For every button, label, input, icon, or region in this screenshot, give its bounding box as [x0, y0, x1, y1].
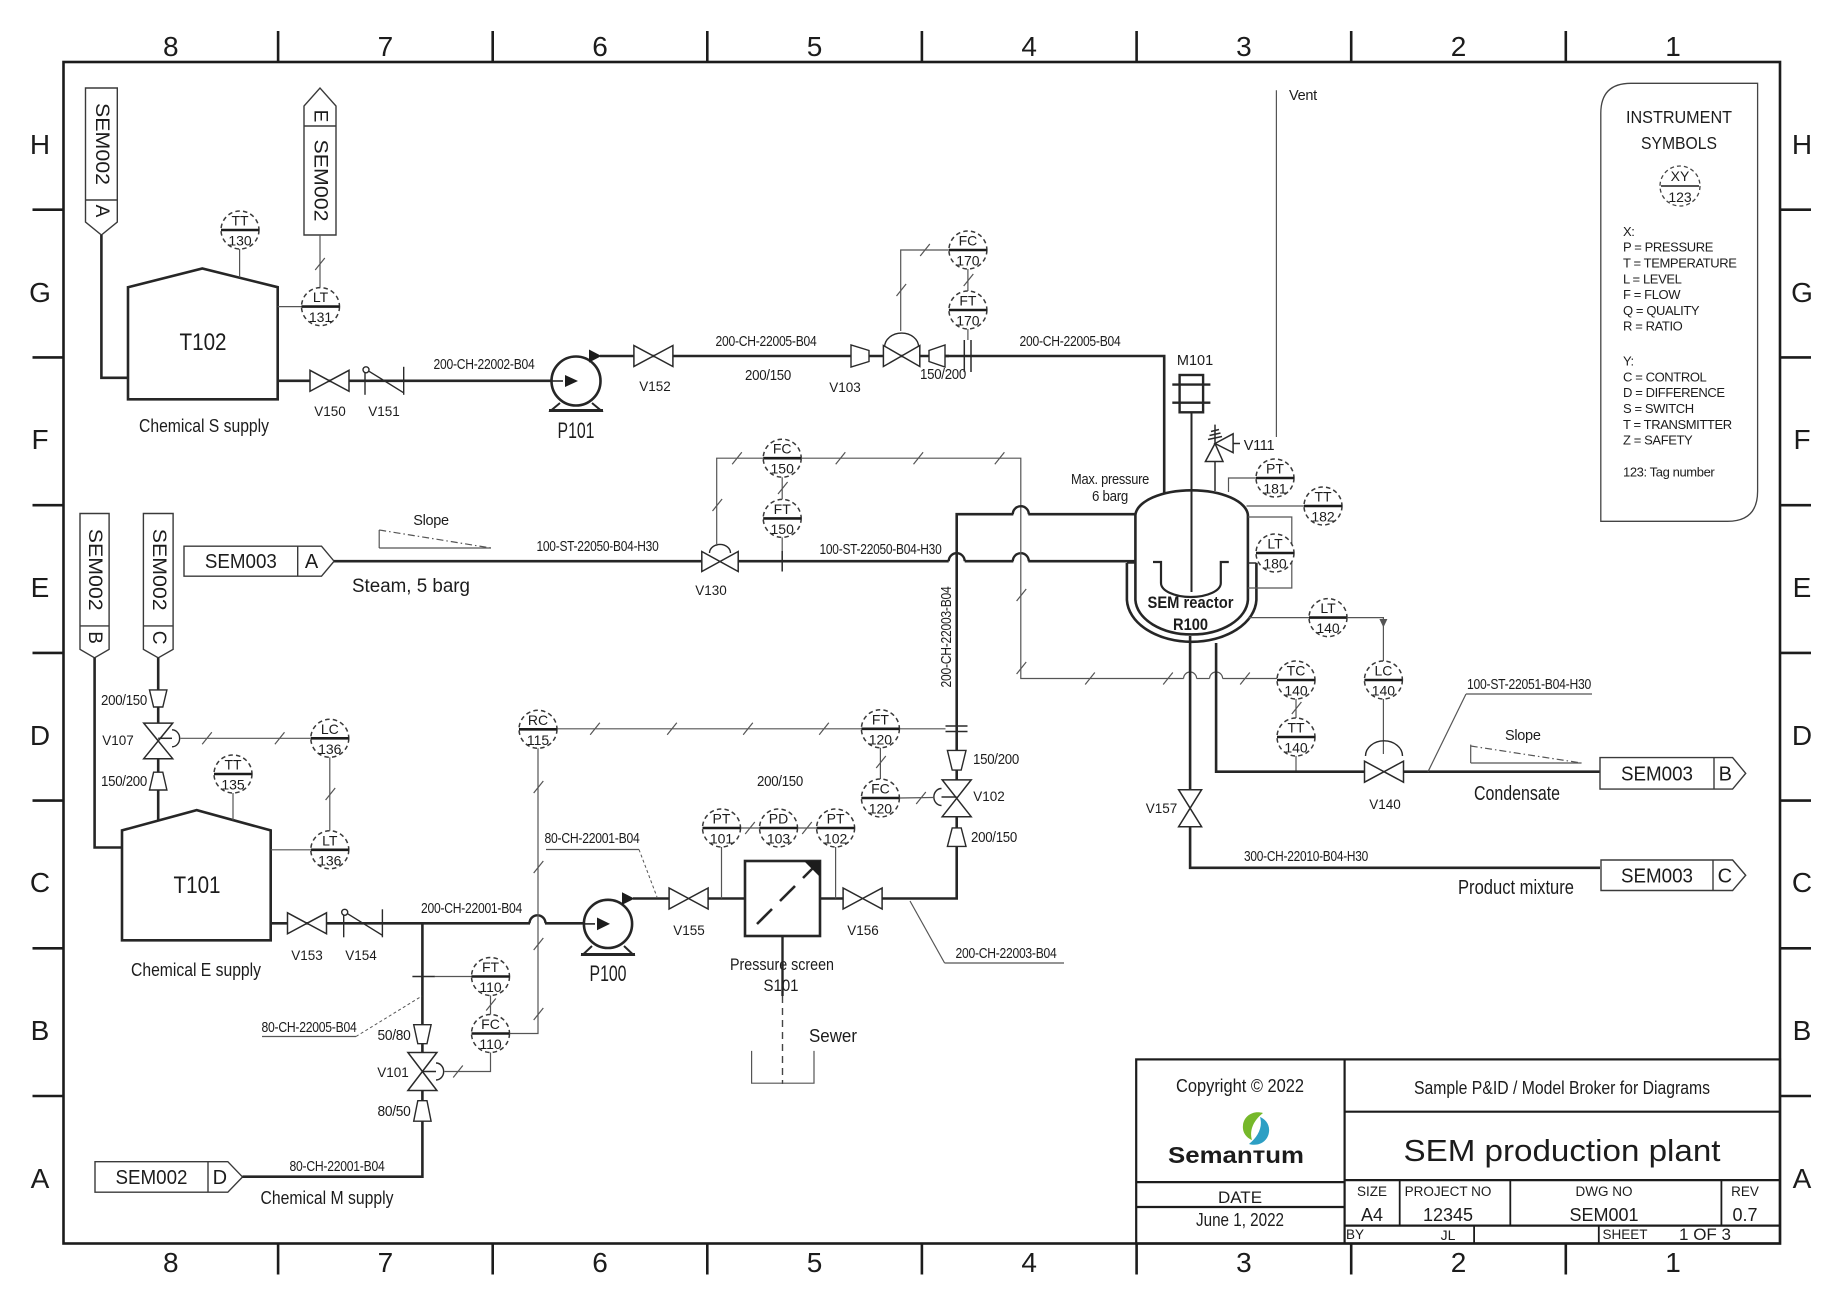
svg-text:E: E: [310, 110, 331, 123]
product pipe from reactor bottom: [1189, 636, 1192, 790]
off-page connector SEM002-A: [86, 88, 118, 235]
orifice flange taps FE170: [964, 340, 971, 372]
pipe 80-CH-22001 from flag D: [243, 1121, 423, 1177]
svg-text:S = SWITCH: S = SWITCH: [1623, 401, 1694, 416]
svg-text:100-ST-22050-B04-H30: 100-ST-22050-B04-H30: [820, 542, 942, 558]
svg-text:V130: V130: [695, 583, 727, 598]
instrument RC115: [519, 710, 557, 748]
svg-text:A: A: [31, 1163, 50, 1194]
svg-text:A: A: [305, 551, 319, 573]
svg-text:A: A: [91, 205, 112, 218]
svg-text:150/200: 150/200: [101, 774, 147, 790]
svg-text:DATE: DATE: [1218, 1188, 1262, 1207]
svg-text:SEM reactor: SEM reactor: [1148, 593, 1234, 612]
svg-text:6: 6: [592, 1247, 608, 1278]
instrument LC140: [1364, 661, 1402, 699]
svg-text:B: B: [84, 631, 105, 644]
svg-text:Z = SAFETY: Z = SAFETY: [1623, 433, 1693, 448]
svg-text:80-CH-22001-B04: 80-CH-22001-B04: [290, 1159, 385, 1175]
instrument LC136: [311, 719, 349, 757]
vent line: [1275, 90, 1277, 444]
svg-text:140: 140: [1372, 683, 1396, 699]
svg-text:135: 135: [221, 777, 245, 793]
svg-text:110: 110: [479, 1036, 502, 1052]
svg-text:T101: T101: [174, 872, 221, 899]
svg-text:TT: TT: [1314, 489, 1332, 505]
svg-text:R100: R100: [1173, 615, 1208, 634]
svg-text:PT: PT: [713, 811, 731, 827]
svg-text:P101: P101: [558, 418, 595, 443]
svg-text:300-CH-22010-B04-H30: 300-CH-22010-B04-H30: [1244, 849, 1368, 865]
svg-text:Chemical M supply: Chemical M supply: [261, 1187, 395, 1208]
svg-text:SEM production plant: SEM production plant: [1404, 1133, 1721, 1168]
svg-text:Max. pressure: Max. pressure: [1071, 472, 1149, 488]
signal FC120 to V102 actuator: [900, 797, 934, 800]
svg-text:TT: TT: [1287, 720, 1305, 736]
svg-text:F: F: [1793, 424, 1810, 455]
leader 200-CH-22003-B04: [910, 901, 945, 963]
instrument FC120: [861, 779, 899, 817]
svg-text:Semanтum: Semanтum: [1168, 1142, 1304, 1168]
svg-text:Y:: Y:: [1623, 354, 1634, 369]
svg-text:123: Tag number: 123: Tag number: [1623, 464, 1715, 479]
svg-text:R = RATIO: R = RATIO: [1623, 319, 1683, 334]
tap tank to LT136: [271, 849, 311, 851]
reactor jacket: [1127, 563, 1257, 642]
svg-text:FC: FC: [959, 233, 978, 249]
steam pipe 100-ST-22050: [334, 560, 702, 563]
tap to LT140: [1248, 617, 1309, 619]
svg-text:140: 140: [1284, 683, 1308, 699]
svg-text:8: 8: [163, 1247, 179, 1278]
svg-text:SEM003: SEM003: [1621, 865, 1693, 887]
off-page connector SEM003-B: [1600, 758, 1746, 790]
taps to LT180: [1248, 517, 1292, 588]
tank T101: [122, 810, 271, 940]
svg-text:115: 115: [527, 732, 550, 748]
reactor internal vortex U: [1153, 562, 1229, 597]
svg-text:150/200: 150/200: [920, 367, 966, 383]
signal RC115 down to FC110: [510, 748, 539, 1033]
svg-text:150: 150: [771, 461, 795, 477]
svg-text:140: 140: [1284, 740, 1308, 756]
svg-text:Sewer: Sewer: [809, 1026, 857, 1046]
svg-text:B: B: [1719, 763, 1732, 785]
stem TT130 to tank roof: [239, 249, 241, 278]
svg-text:SEM003: SEM003: [1621, 763, 1693, 785]
riser pipe 200-CH-22003-B04: [955, 846, 958, 898]
orifice taps FE120: [946, 726, 968, 732]
instrument TT182: [1304, 487, 1342, 525]
svg-text:V150: V150: [314, 404, 346, 419]
svg-text:Slope: Slope: [413, 513, 449, 529]
instrument LT131: [302, 288, 340, 326]
svg-text:V151: V151: [368, 404, 400, 419]
svg-text:Q = QUALITY: Q = QUALITY: [1623, 303, 1700, 318]
svg-text:1: 1: [1665, 1247, 1681, 1278]
svg-text:C: C: [1718, 865, 1732, 887]
signal orifice to FT120: [900, 728, 946, 730]
svg-text:5: 5: [807, 31, 823, 62]
valve V152: [634, 346, 673, 367]
tap to TT182: [1247, 505, 1305, 507]
valve V103: [883, 346, 919, 367]
instrument PT102: [817, 809, 855, 847]
svg-text:SHEET: SHEET: [1602, 1227, 1647, 1242]
slope symbol steam: [379, 530, 491, 548]
svg-text:136: 136: [318, 741, 342, 757]
svg-text:V140: V140: [1369, 797, 1401, 812]
pressure screen S101: [745, 861, 820, 936]
svg-text:SYMBOLS: SYMBOLS: [1641, 133, 1717, 153]
signal LC136-LT136: [329, 757, 331, 830]
svg-text:123: 123: [1668, 189, 1692, 205]
pipe T101 outlet: [271, 922, 530, 925]
signal orifice to FT150: [781, 537, 783, 551]
svg-text:FC: FC: [773, 441, 792, 457]
svg-text:150: 150: [771, 521, 795, 537]
svg-text:F: F: [31, 424, 48, 455]
svg-text:FT: FT: [774, 501, 792, 517]
column numbers bottom: [163, 1247, 1681, 1278]
svg-text:V111: V111: [1244, 438, 1275, 454]
signal FC150 to V130 actuator: [717, 458, 764, 546]
pipe flag C down: [157, 658, 160, 690]
svg-text:FC: FC: [871, 781, 890, 797]
signal RC115 to FT120: [557, 728, 861, 730]
svg-text:200/150: 200/150: [971, 830, 1017, 846]
svg-text:181: 181: [1263, 481, 1287, 497]
safety valve V111: [1205, 425, 1276, 491]
instrument TT130: [221, 211, 259, 249]
svg-text:V155: V155: [673, 923, 705, 938]
svg-text:PROJECT NO: PROJECT NO: [1405, 1184, 1492, 1199]
svg-text:1: 1: [1665, 31, 1681, 62]
svg-text:TC: TC: [1287, 663, 1306, 679]
svg-text:Chemical S supply: Chemical S supply: [139, 415, 270, 436]
svg-text:8: 8: [163, 31, 179, 62]
svg-text:200/150: 200/150: [757, 774, 803, 790]
svg-text:200-CH-22003-B04: 200-CH-22003-B04: [939, 586, 955, 687]
svg-text:V107: V107: [102, 733, 134, 748]
pipe V103 to reactor: [945, 356, 1164, 494]
svg-text:C = CONTROL: C = CONTROL: [1623, 369, 1707, 384]
valve V156: [843, 888, 882, 909]
instrument LT140: [1309, 599, 1347, 637]
svg-text:T = TEMPERATURE: T = TEMPERATURE: [1623, 255, 1737, 270]
svg-text:LC: LC: [1374, 663, 1392, 679]
instrument FC150: [763, 439, 801, 477]
svg-text:FC: FC: [481, 1016, 500, 1032]
svg-text:FT: FT: [959, 293, 977, 309]
signal LC140 to V140: [1382, 699, 1384, 754]
instrument FT170: [949, 291, 987, 329]
svg-text:DWG NO: DWG NO: [1576, 1184, 1633, 1199]
steam pipe V130 to reactor with crossing bumps: [738, 560, 949, 563]
svg-text:180: 180: [1263, 556, 1287, 572]
svg-text:120: 120: [869, 801, 893, 817]
svg-text:2: 2: [1451, 31, 1467, 62]
svg-text:LT: LT: [322, 832, 338, 848]
svg-text:P = PRESSURE: P = PRESSURE: [1623, 240, 1714, 255]
svg-text:136: 136: [318, 852, 342, 868]
svg-text:T102: T102: [180, 329, 227, 356]
svg-text:110: 110: [479, 979, 502, 995]
svg-text:Copyright © 2022: Copyright © 2022: [1176, 1076, 1304, 1096]
off-page connector SEM002-C: [143, 514, 173, 658]
svg-text:H: H: [30, 129, 50, 160]
svg-text:170: 170: [956, 253, 980, 269]
instrument PD103: [760, 809, 798, 847]
svg-text:Product mixture: Product mixture: [1458, 877, 1574, 899]
instrument FC170: [949, 231, 987, 269]
svg-text:200-CH-22002-B04: 200-CH-22002-B04: [434, 357, 535, 373]
row letters left: [29, 129, 51, 1194]
orifice tap on steam line: [781, 551, 783, 572]
svg-text:M101: M101: [1177, 353, 1213, 369]
svg-text:V152: V152: [639, 379, 671, 394]
off-page connector SEM003-A: [184, 546, 334, 576]
svg-text:4: 4: [1021, 31, 1037, 62]
signal orifice to FT110: [435, 976, 472, 978]
svg-text:SIZE: SIZE: [1357, 1184, 1387, 1199]
svg-text:102: 102: [824, 831, 848, 847]
off-page connector SEM002-D: [95, 1162, 243, 1193]
reducer 200/150 above V107: [150, 690, 167, 707]
svg-text:SEM002: SEM002: [148, 529, 169, 611]
instrument PT101: [703, 809, 741, 847]
svg-text:A: A: [1793, 1163, 1812, 1194]
leader 100-ST-22051: [1428, 694, 1466, 772]
off-page connector SEM003-C: [1601, 860, 1746, 891]
svg-text:TT: TT: [231, 213, 249, 229]
svg-text:80-CH-22001-B04: 80-CH-22001-B04: [545, 831, 640, 847]
svg-text:2: 2: [1451, 1247, 1467, 1278]
svg-text:100-ST-22051-B04-H30: 100-ST-22051-B04-H30: [1467, 677, 1591, 693]
svg-text:100-ST-22050-B04-H30: 100-ST-22050-B04-H30: [537, 539, 659, 555]
svg-text:S101: S101: [764, 976, 799, 995]
svg-text:101: 101: [710, 831, 734, 847]
svg-text:103: 103: [767, 831, 791, 847]
svg-text:80-CH-22005-B04: 80-CH-22005-B04: [262, 1020, 357, 1036]
signal FC110 to V101 actuator: [445, 1053, 491, 1072]
svg-text:JL: JL: [1441, 1227, 1456, 1243]
taps PT101 PT102: [721, 847, 723, 899]
svg-text:INSTRUMENT: INSTRUMENT: [1626, 107, 1732, 127]
svg-text:SEM002: SEM002: [91, 103, 112, 185]
pipe up to suction line: [421, 923, 424, 1024]
svg-text:SEM002: SEM002: [116, 1167, 188, 1189]
svg-text:E: E: [31, 572, 50, 603]
reducer 200/150 below V102: [947, 828, 966, 847]
pipe T102 outlet to pump P101: [278, 379, 552, 382]
reducer 150/200 above V102: [947, 750, 966, 770]
svg-text:6 barg: 6 barg: [1092, 489, 1128, 505]
valve V102: [942, 780, 971, 817]
signal FC150 to TC140 (long): [801, 458, 1183, 678]
wire from flag A to tank T102: [101, 235, 128, 378]
svg-text:RC: RC: [528, 712, 548, 728]
svg-text:D: D: [213, 1167, 227, 1189]
svg-text:June 1, 2022: June 1, 2022: [1196, 1210, 1284, 1230]
control valve V130: [710, 544, 731, 553]
condensate pipe from jacket: [1216, 643, 1364, 772]
svg-text:H: H: [1792, 129, 1812, 160]
agitator shaft: [1191, 413, 1193, 593]
signal FT150-FC150: [781, 477, 783, 499]
svg-text:XY: XY: [1671, 168, 1690, 184]
svg-text:PT: PT: [1266, 461, 1284, 477]
svg-text:TT: TT: [224, 757, 242, 773]
svg-text:LC: LC: [321, 721, 339, 737]
signal FT170-FC170: [967, 269, 969, 291]
svg-text:C: C: [1792, 867, 1812, 898]
signal TC140-TT140: [1295, 699, 1297, 718]
valve V107: [144, 723, 173, 759]
svg-text:4: 4: [1021, 1247, 1037, 1278]
check valve V154: [342, 909, 383, 937]
instrument FT110: [472, 958, 510, 996]
svg-text:200-CH-22001-B04: 200-CH-22001-B04: [421, 901, 522, 917]
svg-text:V102: V102: [973, 789, 1005, 804]
svg-text:3: 3: [1236, 31, 1252, 62]
title block texts: [1176, 1076, 1759, 1244]
svg-text:200-CH-22005-B04: 200-CH-22005-B04: [716, 334, 817, 350]
svg-text:LT: LT: [313, 289, 329, 305]
orifice tick FE110: [412, 976, 435, 978]
legend instrument bubble XY 123: [1660, 166, 1700, 206]
svg-text:V101: V101: [377, 1065, 409, 1080]
svg-text:Steam, 5 barg: Steam, 5 barg: [352, 576, 470, 597]
signal FC170 to V103 actuator: [901, 250, 949, 331]
svg-text:Vent: Vent: [1289, 88, 1317, 104]
svg-text:SEM001: SEM001: [1569, 1205, 1638, 1225]
svg-text:D: D: [1792, 720, 1812, 751]
reducer 80/50 below V101: [414, 1101, 431, 1122]
svg-text:X:: X:: [1623, 224, 1634, 239]
svg-text:170: 170: [956, 313, 980, 329]
svg-text:150/200: 150/200: [973, 752, 1019, 768]
reactor R100 vessel: [1135, 490, 1248, 634]
svg-text:FT: FT: [872, 711, 890, 727]
svg-text:182: 182: [1311, 509, 1335, 525]
Semantum logo: [1168, 1112, 1304, 1168]
svg-text:200-CH-22005-B04: 200-CH-22005-B04: [1020, 334, 1121, 350]
svg-text:1 OF 3: 1 OF 3: [1679, 1225, 1731, 1244]
valve V155: [669, 888, 708, 909]
pump P101: [549, 350, 603, 411]
signal FT110-FC110: [490, 996, 492, 1015]
instrument TT140: [1277, 718, 1315, 756]
reducer 150/200 below V107: [150, 772, 167, 790]
svg-text:Slope: Slope: [1505, 728, 1541, 744]
svg-text:B: B: [1793, 1015, 1812, 1046]
valve V153: [288, 913, 327, 934]
valve V140: [1365, 761, 1404, 782]
row letters right: [1791, 129, 1813, 1194]
svg-text:F = FLOW: F = FLOW: [1623, 287, 1681, 302]
svg-text:V156: V156: [847, 923, 879, 938]
valve V101: [408, 1053, 437, 1091]
valve V130: [702, 552, 738, 572]
instrument FT120: [861, 710, 899, 748]
svg-text:BY: BY: [1346, 1227, 1364, 1242]
svg-text:V103: V103: [829, 380, 861, 395]
instrument FC110: [472, 1015, 510, 1053]
pipe flag B to tank T101: [95, 658, 122, 848]
svg-text:LT: LT: [1267, 536, 1283, 552]
svg-text:D: D: [30, 720, 50, 751]
check valve V151: [363, 367, 404, 395]
tank T102: [128, 269, 278, 400]
pipe P100 discharge: [633, 897, 669, 900]
svg-text:E: E: [1793, 572, 1812, 603]
svg-text:V153: V153: [291, 948, 323, 963]
svg-text:5: 5: [807, 1247, 823, 1278]
svg-text:V157: V157: [1146, 801, 1178, 816]
signal V107 to LC136: [181, 737, 311, 739]
pipe P101 discharge to V103 line: [600, 355, 949, 358]
stem TT135: [232, 793, 234, 820]
instrument LT180: [1256, 534, 1294, 572]
sewer line: [781, 936, 783, 996]
control valve V140: [1366, 741, 1403, 756]
off-page connector SEM002-B: [80, 514, 109, 658]
svg-text:200/150: 200/150: [101, 693, 147, 709]
svg-text:140: 140: [1316, 620, 1340, 636]
instrument TT135: [214, 755, 252, 793]
svg-text:T = TRANSMITTER: T = TRANSMITTER: [1623, 417, 1732, 432]
svg-text:C: C: [148, 631, 169, 645]
svg-text:SEM003: SEM003: [205, 551, 277, 573]
svg-text:C: C: [30, 867, 50, 898]
svg-text:80/50: 80/50: [378, 1104, 411, 1120]
svg-text:0.7: 0.7: [1732, 1205, 1757, 1225]
svg-text:130: 130: [228, 233, 252, 249]
column numbers top: [163, 31, 1681, 62]
pump P100: [581, 892, 635, 954]
instrument FT150: [763, 499, 801, 537]
instrument PT181: [1256, 459, 1294, 497]
svg-text:Condensate: Condensate: [1474, 783, 1560, 805]
svg-text:LT: LT: [1320, 600, 1336, 616]
off-page connector SEM002-E: [304, 88, 336, 235]
signal PT101-PD103-PT102: [741, 827, 760, 829]
tap line tank to LT131: [278, 306, 302, 308]
tap to PT181: [1229, 478, 1257, 492]
svg-text:131: 131: [309, 309, 333, 325]
signal FT120-FC120: [879, 748, 881, 779]
svg-text:50/80: 50/80: [378, 1028, 411, 1044]
svg-text:D = DIFFERENCE: D = DIFFERENCE: [1623, 385, 1725, 400]
signal FT170 to orifice: [967, 329, 969, 340]
svg-text:200/150: 200/150: [745, 368, 791, 384]
svg-text:G: G: [1791, 277, 1813, 308]
svg-text:7: 7: [378, 31, 394, 62]
svg-text:3: 3: [1236, 1247, 1252, 1278]
valve V150: [310, 370, 349, 391]
svg-text:PD: PD: [769, 811, 788, 827]
reducer 150/200 right of V103: [929, 345, 945, 367]
svg-text:120: 120: [869, 731, 893, 747]
svg-text:12345: 12345: [1423, 1205, 1473, 1225]
reducer 50/80 above V101: [414, 1025, 431, 1044]
svg-text:7: 7: [378, 1247, 394, 1278]
control valve V103: [885, 333, 919, 347]
svg-text:6: 6: [592, 31, 608, 62]
svg-text:Chemical E supply: Chemical E supply: [131, 959, 262, 980]
svg-text:SEM002: SEM002: [310, 140, 331, 222]
